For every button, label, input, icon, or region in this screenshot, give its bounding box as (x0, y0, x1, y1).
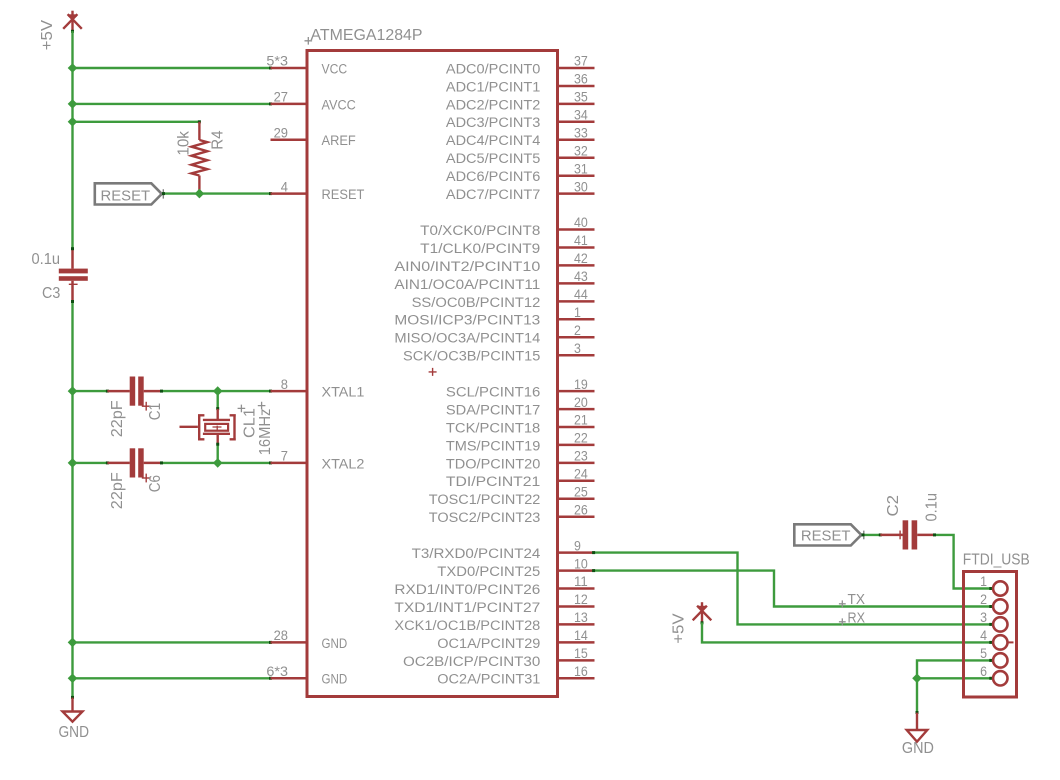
wire +5V to FTDI pin4 (702, 623, 991, 643)
wire FTDI pin6 branch (917, 677, 991, 679)
svg-text:TX: TX (848, 591, 866, 608)
svg-text:TXD1/INT1/PCINT27: TXD1/INT1/PCINT27 (394, 600, 540, 615)
svg-text:43: 43 (574, 268, 588, 284)
svg-text:2: 2 (574, 322, 581, 338)
connector pin circle 5 (993, 653, 1007, 667)
capacitor C2 0.1u (horizontal) (880, 520, 934, 549)
svg-text:ATMEGA1284P: ATMEGA1284P (311, 27, 423, 44)
svg-text:AREF: AREF (322, 133, 356, 148)
svg-text:T0/XCK0/PCINT8: T0/XCK0/PCINT8 (420, 223, 540, 238)
pin stub left XTAL2 (pin 7) (271, 462, 308, 465)
svg-text:19: 19 (574, 376, 588, 392)
junction rail GND28 (68, 638, 78, 648)
svg-text:1: 1 (574, 304, 581, 320)
op IC U ATMEGA1284P box (307, 51, 558, 697)
svg-text:3: 3 (574, 340, 581, 356)
pin stub right ADC6/PCINT6 (pin 31) (558, 174, 595, 177)
svg-text:0.1u: 0.1u (924, 493, 941, 522)
pin stub right OC1A/PCINT29 (pin 14) (558, 641, 595, 644)
svg-text:10: 10 (574, 555, 588, 571)
svg-text:+5V: +5V (39, 19, 56, 50)
pin stub right TDI/PCINT21 (pin 24) (558, 480, 595, 483)
svg-text:XTAL2: XTAL2 (322, 456, 365, 471)
pin stub right OC2A/PCINT31 (pin 16) (558, 677, 595, 680)
svg-text:22pF: 22pF (109, 472, 126, 509)
wire AVCC row to pin (73, 103, 271, 105)
svg-text:OC2B/ICP/PCINT30: OC2B/ICP/PCINT30 (403, 654, 540, 669)
svg-text:GND: GND (322, 636, 348, 651)
svg-text:XCK1/OC1B/PCINT28: XCK1/OC1B/PCINT28 (394, 618, 540, 633)
wire crystal top lead green (216, 391, 218, 409)
svg-text:C1: C1 (147, 403, 164, 420)
wire endpoint dot crystal bottom (216, 443, 219, 446)
svg-text:XTAL1: XTAL1 (322, 385, 365, 400)
svg-text:44: 44 (574, 286, 588, 302)
wire endpoint dot left GND (71, 696, 74, 699)
pin stub left AREF (pin 29) (271, 139, 308, 142)
wire rail to C1 (73, 390, 108, 392)
svg-text:16MHz: 16MHz (257, 409, 274, 456)
pin stub right ADC4/PCINT4 (pin 33) (558, 139, 595, 142)
junction rail/VCC (68, 63, 78, 73)
wire RESET flag to C2 (862, 534, 880, 536)
wire endpoint dot at R4 top (198, 120, 201, 123)
wire endpoint dot at +5V (right) (701, 621, 704, 624)
wire VCC row to pin (73, 67, 271, 69)
pin stub left AVCC (pin 27) (271, 103, 308, 106)
svg-text:C2: C2 (885, 495, 902, 517)
pin stub right RXD1/INT0/PCINT26 (pin 11) (558, 587, 595, 590)
svg-text:8: 8 (281, 376, 288, 392)
svg-text:30: 30 (574, 178, 588, 194)
svg-text:GND: GND (59, 724, 90, 741)
wire endpoint dot pin9 (592, 551, 595, 554)
pin connection dot AVCC (269, 102, 272, 105)
svg-text:TMS/PCINT19: TMS/PCINT19 (446, 438, 540, 453)
wire C1 to crystal/pin (162, 390, 271, 392)
crystal CL1 16MHz (180, 409, 236, 444)
svg-text:AVCC: AVCC (322, 97, 357, 112)
svg-text:9: 9 (574, 537, 581, 553)
svg-text:22pF: 22pF (109, 400, 126, 437)
origin cross at right RESET flag tip (860, 531, 867, 540)
wire endpoint dot C6 right (160, 461, 163, 464)
svg-text:SCK/OC3B/PCINT15: SCK/OC3B/PCINT15 (403, 349, 540, 364)
capacitor C1 22pF (107, 377, 161, 411)
svg-text:RESET: RESET (801, 529, 851, 545)
pin stub right AIN0/INT2/PCINT10 (pin 42) (558, 264, 595, 267)
svg-text:AIN0/INT2/PCINT10: AIN0/INT2/PCINT10 (394, 259, 540, 274)
junction XTAL2/crystal (213, 458, 223, 468)
svg-text:ADC1/PCINT1: ADC1/PCINT1 (446, 79, 540, 94)
svg-text:MOSI/ICP3/PCINT13: MOSI/ICP3/PCINT13 (394, 313, 540, 328)
svg-text:OC1A/PCINT29: OC1A/PCINT29 (437, 636, 540, 651)
svg-text:FTDI_USB: FTDI_USB (963, 551, 1030, 568)
wire FTDI pin5 to GND (917, 660, 991, 712)
wire endpoint dot C3 top (71, 247, 74, 250)
pin connection dot FTDI-4 (989, 641, 992, 644)
svg-text:C6: C6 (147, 475, 164, 492)
svg-text:42: 42 (574, 250, 588, 266)
origin cross of TX label (839, 600, 846, 607)
svg-text:10k: 10k (176, 130, 193, 155)
pin stub left VCC (pin 5*3) (271, 67, 308, 70)
pin stub right ADC1/PCINT1 (pin 36) (558, 85, 595, 88)
wire left rail +5V vertical (71, 31, 73, 249)
svg-text:28: 28 (274, 627, 289, 643)
svg-text:13: 13 (574, 609, 588, 625)
wire RXD0 pin9 to FTDI RX pin3 (594, 553, 991, 625)
pin stub right T3/RXD0/PCINT24 (pin 9) (558, 551, 595, 554)
pin connection dot GND28 (269, 641, 272, 644)
svg-text:7: 7 (281, 448, 288, 464)
svg-text:TDO/PCINT20: TDO/PCINT20 (446, 456, 540, 471)
pin connection dot VCC (269, 67, 272, 70)
svg-text:3: 3 (980, 609, 987, 625)
svg-text:20: 20 (574, 394, 588, 410)
svg-text:2: 2 (980, 591, 987, 607)
connector pin circle 1 (993, 581, 1007, 595)
wire endpoint dot C1 right (160, 390, 163, 393)
net flag RESET (left) (95, 183, 162, 204)
svg-text:MISO/OC3A/PCINT14: MISO/OC3A/PCINT14 (394, 331, 540, 346)
svg-text:TOSC2/PCINT23: TOSC2/PCINT23 (429, 510, 541, 525)
junction rail/R4 branch (68, 117, 78, 127)
wire C6 to crystal/pin (162, 462, 271, 464)
svg-text:21: 21 (574, 412, 588, 428)
connector pin circle 3 (993, 617, 1007, 631)
pin stub right SS/OC0B/PCINT12 (pin 44) (558, 300, 595, 303)
svg-text:ADC5/PCINT5: ADC5/PCINT5 (446, 151, 540, 166)
svg-text:ADC2/PCINT2: ADC2/PCINT2 (446, 97, 540, 112)
pin stub right XCK1/OC1B/PCINT28 (pin 13) (558, 623, 595, 626)
svg-text:TCK/PCINT18: TCK/PCINT18 (446, 420, 540, 435)
pin stub left GND (pin 6*3) (271, 677, 308, 680)
svg-text:OC2A/PCINT31: OC2A/PCINT31 (437, 672, 540, 687)
svg-text:27: 27 (274, 89, 289, 105)
wire C2 to FTDI pin1 (935, 535, 991, 589)
svg-text:35: 35 (574, 89, 588, 105)
origin dash at FTDI pin 4 (1008, 641, 1014, 643)
svg-text:VCC: VCC (322, 61, 348, 76)
pin connection dot FTDI-2 (989, 605, 992, 608)
svg-text:40: 40 (574, 214, 588, 230)
connector pin circle 6 (993, 671, 1007, 685)
svg-text:31: 31 (574, 160, 588, 176)
svg-text:6*3: 6*3 (266, 663, 288, 679)
pin stub right ADC3/PCINT3 (pin 34) (558, 121, 595, 124)
svg-text:4: 4 (980, 627, 987, 643)
pin connection dot FTDI-6 (989, 677, 992, 680)
capacitor C3 0.1u (vertical) (59, 249, 88, 302)
svg-text:25: 25 (574, 484, 588, 500)
capacitor C6 22pF (107, 448, 161, 482)
wire RESET flag to RESET pin (163, 192, 271, 194)
wire endpoint dot at RESET flag tip (162, 192, 165, 195)
svg-text:CL1: CL1 (241, 408, 258, 438)
wire GND pin6*3 row (73, 677, 271, 679)
svg-text:41: 41 (574, 232, 588, 248)
supply +5V symbol (right) (693, 602, 712, 622)
wire GND pin28 row (73, 641, 271, 643)
wire TXD0 pin10 to FTDI TX pin2 (594, 571, 991, 607)
svg-text:ADC4/PCINT4: ADC4/PCINT4 (446, 133, 541, 148)
wire endpoint dot C3 bottom (71, 300, 74, 303)
pin connection dot GND6*3 (269, 677, 272, 680)
pin stub left GND (pin 28) (271, 641, 308, 644)
svg-text:33: 33 (574, 125, 588, 141)
svg-text:+5V: +5V (670, 613, 687, 644)
wire rail to C6 (73, 462, 108, 464)
pin stub right SDA/PCINT17 (pin 20) (558, 408, 595, 411)
pin stub right TMS/PCINT19 (pin 22) (558, 444, 595, 447)
pin stub left XTAL1 (pin 8) (271, 390, 308, 393)
pin stub right T1/CLK0/PCINT9 (pin 41) (558, 246, 595, 249)
svg-text:0.1u: 0.1u (32, 251, 61, 268)
svg-text:AIN1/OC0A/PCINT11: AIN1/OC0A/PCINT11 (394, 277, 540, 292)
wire endpoint dot C1 left (106, 390, 109, 393)
pin stub right ADC0/PCINT0 (pin 37) (558, 67, 595, 70)
svg-text:SCL/PCINT16: SCL/PCINT16 (446, 385, 540, 400)
pin stub right MISO/OC3A/PCINT14 (pin 2) (558, 336, 595, 339)
svg-text:ADC7/PCINT7: ADC7/PCINT7 (446, 187, 540, 202)
svg-text:22: 22 (574, 430, 588, 446)
svg-text:RESET: RESET (322, 187, 365, 202)
svg-text:11: 11 (574, 573, 588, 589)
svg-text:5*3: 5*3 (266, 53, 288, 69)
svg-text:RX: RX (848, 609, 866, 626)
pin connection dot FTDI-3 (989, 623, 992, 626)
wire endpoint dot C2 left (879, 533, 882, 536)
svg-text:RXD1/INT0/PCINT26: RXD1/INT0/PCINT26 (394, 582, 540, 597)
svg-text:GND: GND (902, 740, 934, 757)
pin stub right ADC2/PCINT2 (pin 35) (558, 103, 595, 106)
wire endpoint dot right flag tip (862, 533, 865, 536)
wire endpoint dot pin10 (592, 569, 595, 572)
pin stub right TOSC1/PCINT22 (pin 25) (558, 498, 595, 501)
junction rail row C1 (68, 386, 78, 396)
svg-text:ADC6/PCINT6: ADC6/PCINT6 (446, 169, 540, 184)
pin connection dot XTAL row C1 (269, 390, 272, 393)
wire rail to R4 top (73, 121, 200, 123)
origin cross of CL1 name text (238, 405, 246, 413)
svg-text:29: 29 (274, 125, 289, 141)
pin stub right ADC5/PCINT5 (pin 32) (558, 157, 595, 160)
pin stub right SCK/OC3B/PCINT15 (pin 3) (558, 354, 595, 357)
pin stub right T0/XCK0/PCINT8 (pin 40) (558, 228, 595, 231)
svg-text:32: 32 (574, 142, 588, 158)
junction rail/AVCC (68, 99, 78, 109)
svg-text:RESET: RESET (101, 188, 151, 204)
junction rail row C6 (68, 458, 78, 468)
svg-text:34: 34 (574, 107, 588, 123)
svg-text:14: 14 (574, 627, 588, 643)
pin stub right SCL/PCINT16 (pin 19) (558, 390, 595, 393)
pin stub right TDO/PCINT20 (pin 23) (558, 462, 595, 465)
pin stub right TXD0/PCINT25 (pin 10) (558, 569, 595, 572)
wire endpoint dot C2 right (933, 533, 936, 536)
pin stub right TOSC2/PCINT23 (pin 26) (558, 516, 595, 519)
wire endpoint dot C6 left (106, 461, 109, 464)
origin cross of 16MHz value text (258, 402, 266, 410)
svg-text:ADC3/PCINT3: ADC3/PCINT3 (446, 115, 540, 130)
origin cross of IC name (305, 37, 313, 45)
pin connection dot FTDI-5 (989, 659, 992, 662)
pin stub right MOSI/ICP3/PCINT13 (pin 1) (558, 318, 595, 321)
svg-text:R4: R4 (210, 130, 227, 149)
pin connection dot FTDI-1 (989, 587, 992, 590)
ground symbol (left) (63, 698, 83, 722)
net flag RESET (right) (794, 524, 861, 545)
ground symbol (right) (907, 713, 928, 742)
svg-text:ADC0/PCINT0: ADC0/PCINT0 (446, 61, 540, 76)
wire endpoint dot right GND (916, 711, 919, 714)
svg-text:4: 4 (281, 178, 288, 194)
svg-text:GND: GND (322, 672, 348, 687)
svg-text:SDA/PCINT17: SDA/PCINT17 (446, 402, 540, 417)
wire left rail GND vertical (71, 302, 73, 698)
svg-text:16: 16 (574, 663, 588, 679)
wire endpoint dot at +5V (left) (71, 30, 74, 33)
svg-text:1: 1 (980, 573, 987, 589)
svg-text:TOSC1/PCINT22: TOSC1/PCINT22 (429, 492, 541, 507)
svg-text:24: 24 (574, 466, 588, 482)
pin stub right TCK/PCINT18 (pin 21) (558, 426, 595, 429)
junction XTAL1/crystal (213, 386, 223, 396)
connector pin circle 2 (993, 599, 1007, 613)
svg-text:26: 26 (574, 502, 588, 518)
connector J FTDI_USB box (964, 572, 1017, 698)
pin stub left RESET (pin 4) (271, 192, 308, 195)
junction R4/RESET wire (195, 189, 205, 199)
pin connection dot RESET (269, 192, 272, 195)
wire endpoint dot crystal top (216, 407, 219, 410)
junction rail GND6*3 (68, 673, 78, 683)
svg-text:TXD0/PCINT25: TXD0/PCINT25 (437, 564, 540, 579)
pin stub right ADC7/PCINT7 (pin 30) (558, 192, 595, 195)
svg-text:5: 5 (980, 645, 987, 661)
pin stub right OC2B/ICP/PCINT30 (pin 15) (558, 659, 595, 662)
pin stub right AIN1/OC0A/PCINT11 (pin 43) (558, 282, 595, 285)
wire crystal bottom lead green (216, 444, 218, 463)
svg-text:15: 15 (574, 645, 588, 661)
svg-text:37: 37 (574, 53, 588, 69)
junction GND net right (912, 673, 922, 683)
svg-text:C3: C3 (42, 285, 60, 302)
origin cross at left RESET flag tip (160, 189, 167, 198)
origin cross of RX label (839, 618, 846, 625)
svg-text:SS/OC0B/PCINT12: SS/OC0B/PCINT12 (412, 295, 541, 310)
svg-text:TDI/PCINT21: TDI/PCINT21 (446, 474, 540, 489)
svg-text:T3/RXD0/PCINT24: T3/RXD0/PCINT24 (412, 546, 541, 561)
resistor R4 10k pull-up (192, 122, 208, 194)
svg-text:23: 23 (574, 448, 588, 464)
supply +5V symbol (left) (63, 11, 82, 31)
connector pin circle 4 (993, 635, 1007, 649)
svg-text:12: 12 (574, 591, 588, 607)
svg-text:6: 6 (980, 663, 987, 679)
svg-text:36: 36 (574, 71, 588, 87)
gate origin cross inside IC (429, 368, 437, 376)
pin stub right TXD1/INT1/PCINT27 (pin 12) (558, 605, 595, 608)
svg-text:T1/CLK0/PCINT9: T1/CLK0/PCINT9 (420, 241, 540, 256)
pin connection dot XTAL row C6 (269, 461, 272, 464)
